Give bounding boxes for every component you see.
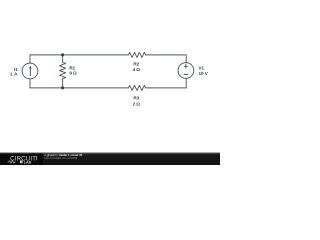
junction dot bottom of R1 — [61, 86, 64, 89]
CircuitLab logo LAB block — [20, 161, 23, 164]
svg-text:4 Ω: 4 Ω — [133, 67, 141, 72]
svg-text:2 Ω: 2 Ω — [133, 101, 141, 106]
wire right rail top — [185, 55, 187, 63]
I1 arrow — [29, 53, 64, 89]
svg-text:LAB: LAB — [24, 160, 32, 164]
svg-text:1 A: 1 A — [10, 71, 18, 76]
svg-text:R3: R3 — [133, 95, 139, 100]
wire right rail bottom — [185, 78, 187, 88]
svg-text:http://circuitlab.com/czs2636: http://circuitlab.com/czs2636 — [45, 156, 78, 160]
resistor R2 — [128, 52, 145, 57]
wire top-right segment — [146, 54, 187, 56]
labels — [10, 61, 209, 106]
resistor R1 — [60, 55, 66, 88]
wire left rail bottom — [29, 79, 31, 88]
voltage source V1 — [178, 63, 194, 79]
svg-text:9 Ω: 9 Ω — [69, 70, 77, 75]
wire bottom-left segment — [30, 87, 128, 89]
resistor R3 — [128, 85, 145, 90]
CircuitLab logo zigzag — [8, 161, 16, 164]
svg-text:R2: R2 — [133, 61, 139, 66]
footer bar — [0, 152, 220, 165]
svg-text:10 V: 10 V — [199, 71, 209, 76]
footer logo zone — [0, 154, 41, 166]
CircuitLab logo right pin — [36, 156, 38, 160]
wire top-left segment — [30, 54, 128, 56]
wire bottom-right segment — [146, 87, 187, 89]
wire left rail top — [29, 55, 31, 63]
junction dot top of R1 — [61, 53, 64, 56]
current source I1 — [22, 63, 38, 79]
